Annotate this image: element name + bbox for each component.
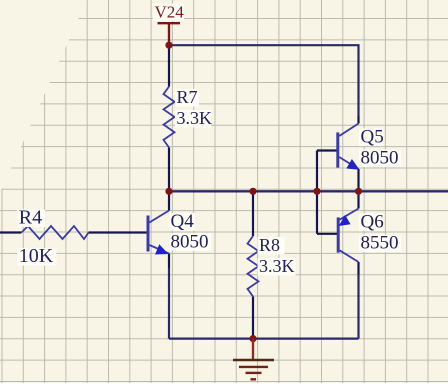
svg-text:R4: R4 — [19, 207, 42, 229]
svg-text:Q4: Q4 — [171, 211, 195, 232]
svg-text:8050: 8050 — [361, 148, 399, 169]
svg-text:3.3K: 3.3K — [177, 108, 213, 128]
svg-text:Q6: Q6 — [361, 211, 384, 232]
svg-text:Q5: Q5 — [361, 127, 384, 148]
svg-text:3.3K: 3.3K — [259, 256, 295, 276]
svg-text:8550: 8550 — [361, 233, 399, 254]
svg-text:R8: R8 — [259, 235, 280, 255]
svg-text:R7: R7 — [177, 87, 198, 107]
svg-text:10K: 10K — [19, 245, 54, 267]
svg-text:V24: V24 — [155, 3, 185, 22]
svg-text:8050: 8050 — [171, 231, 209, 252]
